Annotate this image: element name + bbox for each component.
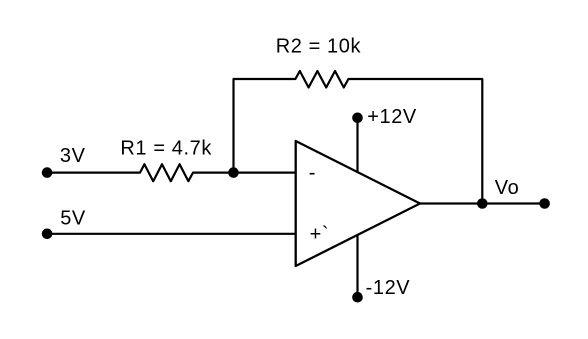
svg-text:+12V: +12V [367, 106, 417, 128]
svg-text:Vo: Vo [495, 177, 520, 199]
svg-text:-: - [309, 162, 316, 184]
svg-text:-12V: -12V [366, 277, 411, 299]
svg-text:+`: +` [310, 224, 330, 246]
svg-text:R1 = 4.7k: R1 = 4.7k [120, 137, 212, 159]
svg-text:3V: 3V [60, 145, 86, 167]
svg-text:R2 = 10k: R2 = 10k [276, 36, 362, 58]
svg-text:5V: 5V [60, 208, 86, 230]
